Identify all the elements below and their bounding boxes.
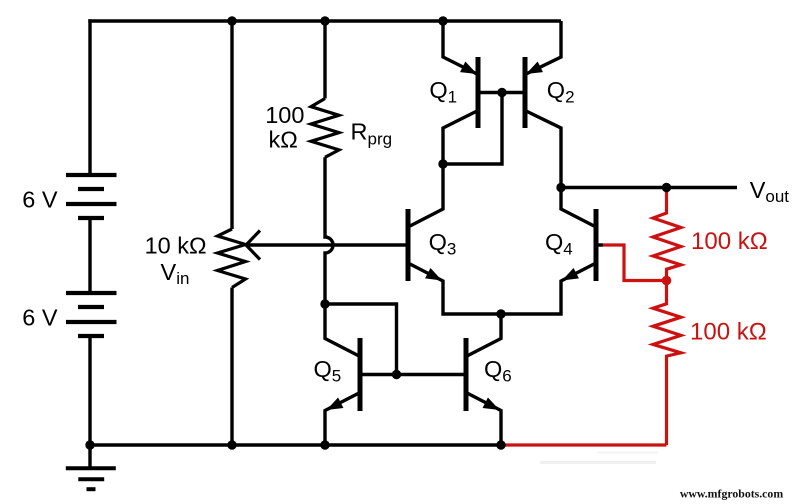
- resistor R2 100k (red) body and leads: [653, 281, 681, 446]
- svg-text:6 V: 6 V: [22, 305, 58, 331]
- node Q1 collector junction: [438, 159, 447, 168]
- svg-text:10 kΩ: 10 kΩ: [145, 233, 207, 259]
- wire Q3 emitter to tail node: [408, 263, 501, 314]
- transistor Q2 bar: [523, 57, 528, 128]
- svg-text:100 kΩ: 100 kΩ: [690, 319, 767, 346]
- node top rail / pot: [227, 16, 236, 25]
- transistor Q6 emitter arrow: [483, 397, 503, 415]
- battery B1 (6 V): [66, 175, 117, 218]
- wire pot wiper to Q3 base: [246, 243, 408, 246]
- svg-text:www.mfgrobots.com: www.mfgrobots.com: [680, 487, 783, 501]
- node ground rail / left: [85, 440, 94, 449]
- wire Q1 collector lead: [443, 111, 478, 165]
- battery B2 (6 V): [66, 293, 117, 336]
- transistor Q3 bar: [406, 209, 411, 281]
- svg-text:kΩ: kΩ: [269, 127, 298, 153]
- node ground rail / Q6 emitter: [496, 440, 505, 449]
- transistor Q4 bar: [594, 209, 599, 281]
- node top rail / Q1 emitter: [438, 16, 447, 25]
- wire Q2 collector to output node: [525, 111, 561, 188]
- node tail junction: [496, 309, 505, 318]
- node ground rail / Q5 emitter: [320, 440, 329, 449]
- node output / divider top: [662, 183, 671, 192]
- wire potentiometer bottom lead: [230, 288, 233, 446]
- svg-text:6 V: 6 V: [22, 187, 58, 213]
- wire battery B2 to bottom rail: [88, 336, 91, 445]
- wire red Q4 base to divider mid node: [603, 245, 667, 281]
- wire Q5 emitter to ground rail: [325, 393, 360, 446]
- node Q5 base junction: [392, 370, 401, 379]
- wire Q1-Q2 base line: [478, 91, 525, 94]
- wire Q2 emitter lead from rail: [525, 21, 561, 75]
- wire Q6 collector to tail node: [466, 314, 501, 357]
- wire Rprg bottom lead with hop over wiper: [325, 157, 333, 304]
- wire Rprg top lead: [323, 21, 326, 99]
- transistor Q1 emitter arrow: [460, 62, 480, 80]
- transistor Q5 emitter arrow: [324, 397, 344, 415]
- svg-text:100 kΩ: 100 kΩ: [691, 228, 768, 255]
- node Q1-Q2 base junction: [497, 88, 506, 97]
- node Rprg / Q5 collector: [320, 299, 329, 308]
- potentiometer 10 kOhm body: [218, 229, 246, 288]
- resistor Rprg 100k body: [311, 99, 339, 158]
- node divider mid (red): [662, 276, 672, 286]
- wire red bottom return: [501, 443, 667, 446]
- node top rail / Rprg: [320, 16, 329, 25]
- wire output line to Vout: [561, 186, 737, 189]
- wire Q3 collector lead: [408, 164, 443, 227]
- wire Q4 base stub: [596, 243, 603, 246]
- wire bottom ground rail (black part): [90, 443, 501, 446]
- transistor Q4 emitter arrow: [559, 268, 579, 286]
- watermark faint bars: [597, 452, 658, 454]
- ground: [66, 445, 116, 489]
- wire Q4 emitter to tail node: [501, 263, 596, 314]
- transistor Q6 bar: [464, 338, 469, 411]
- svg-text:100: 100: [265, 102, 304, 128]
- wire Q4 collector lead: [561, 188, 596, 228]
- transistor Q3 emitter arrow: [425, 268, 445, 286]
- wire between battery B1 and B2: [88, 218, 91, 293]
- transistor Q1 bar: [476, 57, 481, 128]
- wire potentiometer top lead: [230, 21, 233, 229]
- wire Q5 base-collector tie: [325, 304, 397, 375]
- wire Q5-Q6 base line: [360, 373, 466, 376]
- wire Q6 emitter to ground rail: [466, 393, 501, 446]
- node output / Q2 collector: [556, 183, 565, 192]
- transistor Q5 bar: [358, 338, 363, 411]
- wire top supply rail: [88, 19, 561, 22]
- resistor R1 100k (red) body and leads: [653, 188, 681, 281]
- wire Q1 base-collector tie: [443, 93, 502, 165]
- wire Q1 emitter lead from rail: [443, 21, 478, 75]
- wire left vertical from rail to battery B1: [88, 19, 91, 175]
- wire Q5 collector to Rprg node: [325, 304, 360, 357]
- potentiometer wiper arrow: [246, 231, 260, 260]
- transistor Q2 emitter arrow: [523, 62, 543, 80]
- node ground rail / pot: [227, 440, 236, 449]
